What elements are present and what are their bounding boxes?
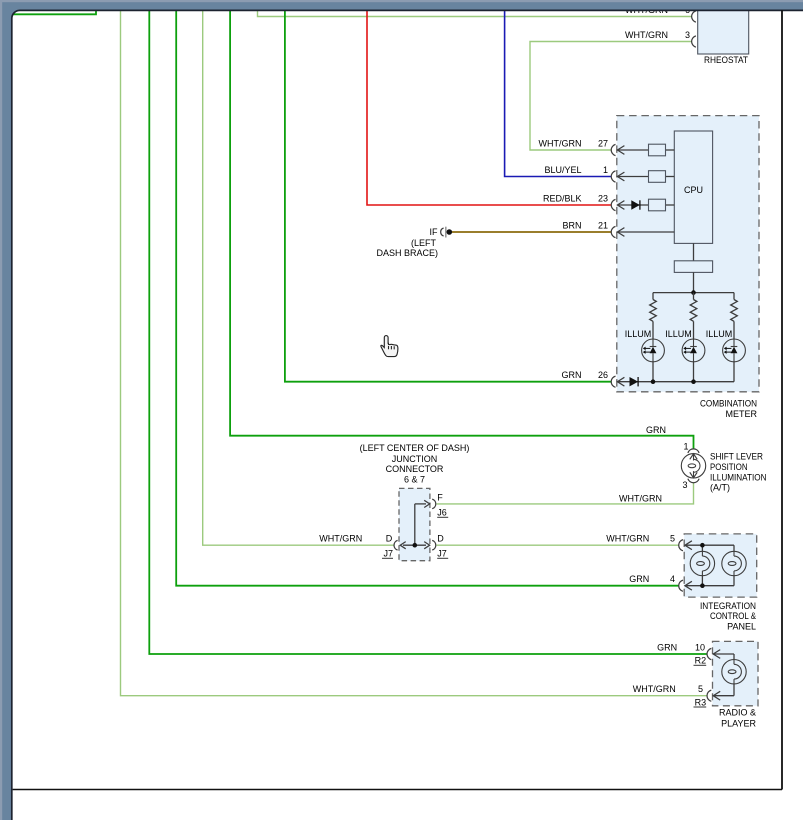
wire WHT/GRN vertical 4 to junction connector J7 pin D (203, 11, 394, 546)
diode D2 on pin 26 wire (630, 377, 639, 386)
connector RHEOSTAT pin 6 (692, 11, 696, 22)
node lamp2 to bus (691, 379, 696, 384)
mouse pointer cursor (381, 336, 398, 357)
svg-text:23: 23 (598, 193, 608, 203)
svg-text:BLU/YEL: BLU/YEL (544, 165, 581, 175)
svg-text:R3: R3 (695, 697, 707, 707)
wire junction internal F to D (414, 504, 416, 545)
svg-text:GRN: GRN (562, 370, 582, 380)
svg-text:27: 27 (598, 138, 608, 148)
resistor R illum x=693.5 (690, 300, 697, 322)
connector integration pin 5 (679, 540, 683, 551)
svg-text:WHT/GRN: WHT/GRN (606, 534, 649, 544)
wire lamp branch x=734 (733, 293, 735, 300)
resistor R illum x=734 (731, 300, 738, 322)
svg-text:WHT/GRN: WHT/GRN (539, 138, 582, 148)
lamp integration bulb 2 (722, 551, 746, 575)
svg-text:WHT/GRN: WHT/GRN (619, 494, 662, 504)
connector radio pin 5 (707, 690, 711, 701)
wire GRN vertical 2 to RADIO pin 10 (149, 11, 707, 655)
connector junction pin D right (432, 540, 436, 550)
page border bottom (13, 789, 782, 791)
svg-text:F: F (437, 493, 443, 503)
radio & player box (713, 641, 759, 705)
wire gray interior (617, 204, 648, 206)
wire resistor block to branch node (693, 272, 695, 292)
connector pin 1 (611, 171, 615, 182)
wire WHT/GRN vertical 1 to RADIO pin 5 (121, 11, 708, 696)
svg-text:5: 5 (698, 684, 703, 694)
combination meter box (617, 116, 759, 392)
svg-text:GRN: GRN (646, 425, 666, 435)
connector integration pin 4 (679, 580, 683, 591)
svg-text:J7: J7 (437, 549, 447, 559)
svg-text:5: 5 (670, 534, 675, 544)
svg-text:CPU: CPU (684, 185, 703, 195)
lamp ILLUM x=734 (723, 339, 746, 362)
lamp integration bulb 1 (690, 551, 714, 575)
interface box (649, 199, 666, 211)
wire GRN vertical 3 to INTEGRATION pin 4 (176, 11, 679, 586)
svg-text:D: D (386, 534, 393, 544)
wire radio top (713, 653, 734, 655)
node bulb1 top (700, 543, 705, 548)
svg-text:(LEFT: (LEFT (411, 238, 437, 248)
svg-text:PANEL: PANEL (727, 621, 756, 631)
connector junction pin D left (394, 540, 398, 550)
svg-text:1: 1 (683, 442, 688, 452)
node bulb1 bottom (700, 583, 705, 588)
svg-text:RHEOSTAT: RHEOSTAT (704, 55, 748, 65)
node IF junction dot (447, 229, 453, 235)
connector junction pin F (432, 499, 436, 509)
resistor R illum x=653 (650, 300, 657, 322)
svg-text:3: 3 (685, 30, 690, 40)
svg-text:D: D (437, 534, 444, 544)
connector RHEOSTAT pin 3 (692, 36, 696, 47)
svg-text:BRN: BRN (562, 220, 581, 230)
svg-text:COMBINATION: COMBINATION (700, 399, 757, 409)
interface box (649, 171, 666, 183)
svg-text:ILLUM: ILLUM (665, 329, 692, 339)
wire radio bottom (733, 684, 735, 696)
svg-text:ILLUMINATION: ILLUMINATION (710, 472, 767, 482)
svg-text:RADIO &: RADIO & (719, 708, 756, 718)
svg-text:J7: J7 (383, 549, 393, 559)
svg-text:3: 3 (682, 480, 687, 490)
wire WHT/GRN RHEOSTAT pin 3 to COMBINATION METER pin 27 (530, 42, 692, 151)
svg-text:ILLUM: ILLUM (625, 329, 652, 339)
lamp shift lever illumination (681, 454, 705, 478)
wire GRN vertical 5 to SHIFT LEVER ILLUMINATION pin 1 (230, 11, 693, 450)
wire GRN top-left to off-page (13, 11, 96, 15)
svg-text:METER: METER (726, 409, 758, 419)
op-amp/cpu block U1 CPU (674, 131, 712, 243)
node branch junction (691, 290, 696, 295)
svg-text:R2: R2 (695, 656, 707, 666)
svg-text:6 & 7: 6 & 7 (404, 474, 425, 484)
wire branch bus (653, 292, 734, 294)
svg-text:4: 4 (670, 574, 675, 584)
node junction D (413, 543, 418, 548)
svg-text:CONNECTOR: CONNECTOR (386, 464, 444, 474)
svg-text:PLAYER: PLAYER (721, 718, 756, 728)
page border right (781, 10, 783, 789)
connector radio pin 10 (707, 648, 711, 659)
svg-text:ILLUM: ILLUM (706, 329, 733, 339)
wire WHT/GRN junction connector J7 pin D to INTEGRATION pin 5 (437, 544, 679, 546)
lamp ILLUM x=653 (642, 339, 665, 362)
wire CPU to resistor block (693, 243, 695, 260)
svg-text:WHT/GRN: WHT/GRN (319, 534, 362, 544)
connector pin 21 (611, 226, 615, 237)
svg-text:SHIFT LEVER: SHIFT LEVER (710, 452, 763, 462)
wire GRN vertical 7 to COMBINATION METER pin 26 (285, 11, 611, 382)
svg-text:WHT/GRN: WHT/GRN (625, 30, 668, 40)
connector pin 23 (611, 199, 615, 210)
wire WHT/GRN SHIFT LEVER pin 3 to junction connector J6 pin F (437, 483, 694, 504)
connector IF (left dash brace) (441, 228, 444, 236)
connector shift bulb pin 1 (688, 449, 699, 453)
rheostat box (698, 0, 749, 54)
svg-text:CONTROL &: CONTROL & (710, 611, 756, 621)
svg-text:IF: IF (430, 227, 439, 237)
connector shift bulb pin 3 (688, 479, 699, 483)
wire gray interior (617, 149, 648, 151)
wire BLU/YEL to COMBINATION METER pin 1 (505, 11, 611, 177)
wire lamp branch x=693.5 (693, 293, 695, 300)
svg-text:DASH BRACE): DASH BRACE) (376, 248, 438, 258)
lamp ILLUM x=693.5 (682, 339, 705, 362)
svg-text:RED/BLK: RED/BLK (543, 193, 582, 203)
svg-text:1: 1 (603, 165, 608, 175)
junction connector box J6/J7 (399, 488, 430, 560)
svg-text:INTEGRATION: INTEGRATION (700, 601, 756, 611)
wire gray interior pin 26 bus (617, 381, 734, 383)
lamp radio illumination (722, 660, 746, 684)
svg-text:10: 10 (695, 642, 705, 652)
interface box (649, 144, 666, 156)
svg-text:(A/T): (A/T) (710, 483, 730, 493)
wire lamp branch x=653 (652, 293, 654, 300)
node lamp1 to bus (651, 379, 656, 384)
svg-text:GRN: GRN (657, 642, 677, 652)
svg-text:J6: J6 (437, 508, 447, 518)
svg-text:JUNCTION: JUNCTION (392, 454, 438, 464)
wire gray interior pin 21 to CPU (617, 231, 674, 233)
wire integration top bus (685, 544, 734, 546)
svg-text:WHT/GRN: WHT/GRN (633, 684, 676, 694)
svg-text:26: 26 (598, 370, 608, 380)
svg-text:(LEFT CENTER OF DASH): (LEFT CENTER OF DASH) (360, 443, 470, 453)
wire bulb2 vertical (733, 545, 735, 551)
wire bulb1 vertical (701, 545, 703, 551)
wire WHT/GRN vertical 6 to RHEOSTAT pin 6 (258, 11, 692, 17)
wire RED/BLK to COMBINATION METER pin 23 (367, 11, 611, 206)
wire BRN from IF connector to COMBINATION METER pin 21 (452, 231, 611, 233)
connector pin 26 (611, 376, 615, 387)
connector pin 27 (611, 144, 615, 155)
svg-text:21: 21 (598, 220, 608, 230)
wire gray interior (617, 176, 648, 178)
wire junction internal D row (403, 544, 426, 546)
svg-text:POSITION: POSITION (710, 462, 748, 472)
diode D1 on pin 23 wire (631, 200, 640, 209)
integration control & panel box (684, 534, 757, 597)
svg-text:GRN: GRN (629, 574, 649, 584)
wire integration bottom bus (685, 585, 734, 587)
resistor block (674, 261, 712, 273)
